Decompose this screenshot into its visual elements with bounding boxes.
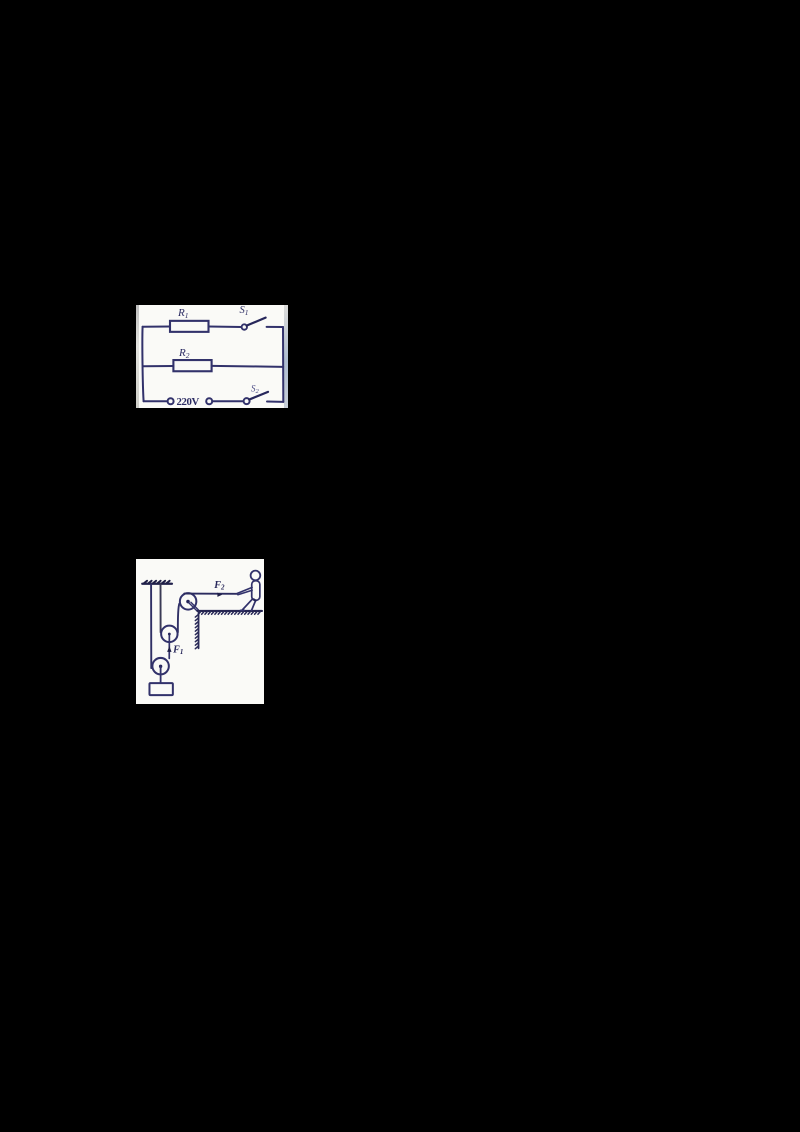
ground hatching	[198, 611, 260, 614]
person arm lower	[237, 590, 251, 595]
wire bottom branch left	[144, 400, 168, 402]
switch S1 lever	[247, 318, 266, 326]
rope to ceiling (left)	[150, 584, 152, 668]
weight block	[149, 683, 172, 695]
svg-text:220V: 220V	[177, 396, 200, 408]
resistor R2	[173, 360, 211, 371]
lower movable pulley	[152, 657, 168, 673]
wire bottom branch right	[267, 401, 283, 403]
rope middle pulley to fixed pulley	[177, 603, 179, 632]
rope to ceiling (right)	[159, 584, 161, 632]
svg-text:S2: S2	[251, 383, 260, 395]
wire left vertical	[142, 327, 143, 402]
fixed pulley support strut	[189, 602, 197, 610]
resistor R1	[170, 321, 209, 332]
wire middle branch left	[143, 365, 173, 367]
wire bottom branch middle	[212, 400, 243, 402]
movable pulley axle stem	[168, 633, 170, 642]
person hip mark	[253, 599, 255, 600]
rope to person (F2 rope)	[184, 592, 237, 594]
wire top branch middle	[209, 326, 242, 328]
wire right vertical	[282, 327, 284, 402]
movable pulley (middle)	[161, 625, 177, 641]
person arm upper	[237, 587, 252, 593]
svg-text:F1: F1	[172, 644, 183, 656]
cliff face line	[197, 610, 199, 647]
person front foot	[240, 609, 244, 611]
lower pulley axle dot	[158, 664, 161, 667]
ceiling line	[142, 582, 172, 584]
arrow F2	[217, 592, 222, 596]
pulley system scan patch	[136, 559, 265, 705]
wire middle branch right	[212, 366, 284, 367]
hook stem to weight	[159, 666, 161, 683]
switch S1 contact	[242, 324, 247, 329]
svg-text:F2: F2	[213, 579, 225, 591]
fixed pulley	[179, 593, 195, 609]
wire top branch right	[267, 326, 283, 328]
person back leg	[251, 600, 255, 610]
switch S2 lever	[249, 392, 268, 400]
svg-text:S1: S1	[240, 305, 249, 317]
cliff hatching	[195, 614, 198, 648]
ceiling hatching	[144, 580, 170, 582]
switch S2 contact	[244, 398, 250, 404]
fixed pulley axle dot	[186, 599, 190, 603]
wire top branch left	[143, 326, 170, 328]
person head	[250, 570, 260, 580]
person front leg	[241, 598, 252, 609]
battery terminal left	[168, 398, 174, 404]
svg-text:R1: R1	[177, 307, 188, 320]
arrow F1	[167, 646, 171, 652]
F1 rope segment	[168, 642, 170, 658]
battery terminal right	[206, 398, 212, 404]
movable pulley axle dot	[167, 632, 170, 635]
person torso	[251, 580, 259, 599]
svg-text:R2: R2	[178, 347, 190, 360]
circuit schematic scan patch	[136, 305, 288, 408]
ground line (platform)	[197, 609, 262, 611]
